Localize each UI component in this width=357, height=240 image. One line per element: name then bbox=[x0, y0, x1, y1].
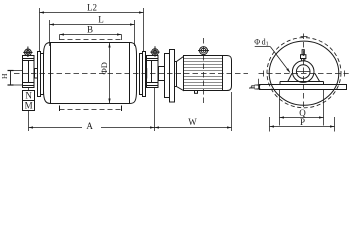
svg-text:L: L bbox=[98, 15, 104, 25]
dimension L2 bbox=[39, 8, 41, 51]
main centerline bbox=[14, 73, 248, 75]
base plate bbox=[260, 85, 347, 90]
dimension W extension right bbox=[231, 92, 233, 131]
dimension Q bbox=[280, 117, 324, 119]
N box bbox=[23, 91, 35, 101]
dimension A extension left bbox=[28, 111, 30, 132]
motor vertical centerline bbox=[203, 38, 205, 104]
left bearing block bbox=[23, 56, 35, 88]
svg-text:A: A bbox=[86, 121, 93, 131]
dimension W bbox=[155, 127, 232, 129]
svg-text:ΦD: ΦD bbox=[99, 62, 109, 74]
dimension A bbox=[29, 127, 83, 129]
svg-text:Φd1: Φd1 bbox=[254, 38, 268, 48]
belt bottom tick right bbox=[121, 106, 123, 112]
motor end cap bbox=[223, 56, 232, 91]
svg-text:h: h bbox=[247, 85, 256, 89]
centerline cross tick top bbox=[301, 36, 308, 38]
centerline cross tick left bbox=[263, 71, 265, 77]
bearing housing circle bbox=[292, 61, 314, 83]
belt bottom tick left bbox=[59, 106, 61, 112]
eyebolt bbox=[200, 47, 208, 55]
motor shaft stub bbox=[159, 67, 165, 81]
left flange disc 2 bbox=[41, 54, 44, 95]
right shaft stub bbox=[146, 69, 147, 79]
end view horizontal centerline bbox=[259, 73, 349, 75]
dimension B bbox=[60, 34, 122, 36]
drain plug bbox=[195, 91, 198, 94]
belt circle dashed bbox=[267, 38, 341, 108]
svg-text:H: H bbox=[0, 73, 9, 79]
dimension A/W shared extension bbox=[154, 88, 156, 132]
svg-text:P: P bbox=[300, 117, 305, 127]
right grease fitting (ring) bbox=[152, 49, 159, 56]
right bearing flange disc 1 bbox=[143, 52, 146, 97]
left grease fitting (ring) bbox=[25, 49, 32, 56]
block sides / Q extensions bbox=[279, 90, 281, 126]
right bearing flange disc 2 bbox=[140, 54, 143, 95]
svg-text:W: W bbox=[188, 117, 197, 127]
belt line bottom (dashed) bbox=[60, 109, 123, 111]
extension stub block to N box bbox=[28, 88, 30, 91]
dimension phi-D bbox=[109, 43, 111, 103]
grease nipple end view bbox=[302, 50, 304, 55]
bearing center tick bbox=[297, 71, 310, 73]
end view vertical centerline bbox=[303, 34, 305, 109]
left flange disc 1 bbox=[38, 52, 41, 97]
gearbox cone bbox=[177, 57, 184, 91]
dimension P bbox=[270, 126, 335, 128]
right bearing block bbox=[147, 56, 159, 88]
drum end seam left bbox=[50, 43, 52, 103]
svg-text:N: N bbox=[25, 91, 32, 101]
svg-text:M: M bbox=[25, 101, 33, 111]
motor body bbox=[184, 56, 223, 91]
gearbox spacer bbox=[175, 62, 177, 87]
motor flange disc A bbox=[165, 54, 170, 98]
plummer foot bbox=[280, 82, 324, 85]
dimension L bbox=[49, 20, 51, 46]
svg-text:L2: L2 bbox=[87, 3, 97, 13]
drum circle solid bbox=[269, 41, 339, 105]
drum shell outline bbox=[44, 43, 137, 104]
belt line top (dashed) bbox=[60, 39, 122, 41]
P extensions bbox=[269, 117, 271, 132]
shaft circle d1 bbox=[296, 65, 310, 79]
M box bbox=[23, 101, 35, 111]
dimension h bbox=[255, 84, 260, 86]
centerline cross tick right bbox=[344, 71, 346, 77]
left shaft stub bbox=[35, 69, 38, 79]
drum end seam right bbox=[129, 43, 131, 103]
motor flange disc B bbox=[170, 50, 175, 103]
plummer shoulders bbox=[288, 73, 320, 81]
motor fins bbox=[184, 59, 223, 89]
dimension H bbox=[8, 70, 23, 72]
svg-text:B: B bbox=[87, 25, 93, 35]
